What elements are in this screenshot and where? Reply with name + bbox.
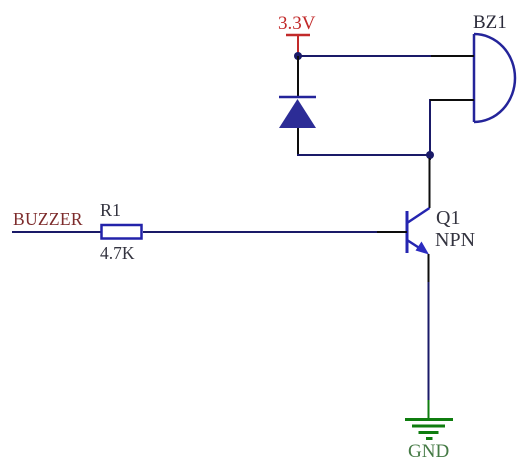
wire from R1 to Q1 base pin bbox=[143, 231, 378, 233]
svg-text:3.3V: 3.3V bbox=[278, 13, 316, 34]
diode D1 pin (anode) bbox=[297, 128, 299, 154]
power symbol 3.3V bbox=[286, 35, 310, 54]
svg-text:NPN: NPN bbox=[435, 229, 475, 251]
wire from BUZZER net to resistor R1 bbox=[12, 231, 101, 233]
ground symbol GND bbox=[405, 400, 453, 439]
transistor Q1 bbox=[377, 158, 430, 282]
wire from buzzer BZ1 pin 2 down to node B bbox=[429, 99, 431, 155]
junction node A (3.3V rail) bbox=[294, 52, 302, 60]
svg-text:Q1: Q1 bbox=[436, 207, 460, 229]
junction node B (collector net) bbox=[426, 151, 434, 159]
wire from node B to Q1 collector bbox=[429, 155, 431, 160]
buzzer BZ1 bbox=[430, 34, 515, 122]
resistor R1 bbox=[102, 225, 142, 239]
wire from diode anode to junction node B bbox=[298, 154, 430, 155]
wire from Q1 emitter to ground bbox=[428, 282, 430, 400]
diode D1 bbox=[279, 97, 316, 128]
diode D1 pin (cathode, to node A) bbox=[297, 56, 299, 96]
svg-text:BUZZER: BUZZER bbox=[13, 209, 83, 229]
svg-text:4.7K: 4.7K bbox=[100, 243, 135, 263]
svg-text:GND: GND bbox=[408, 441, 449, 462]
svg-text:BZ1: BZ1 bbox=[473, 12, 507, 33]
svg-text:R1: R1 bbox=[100, 200, 121, 220]
wire from node A to buzzer BZ1 pin 1 bbox=[298, 55, 431, 57]
